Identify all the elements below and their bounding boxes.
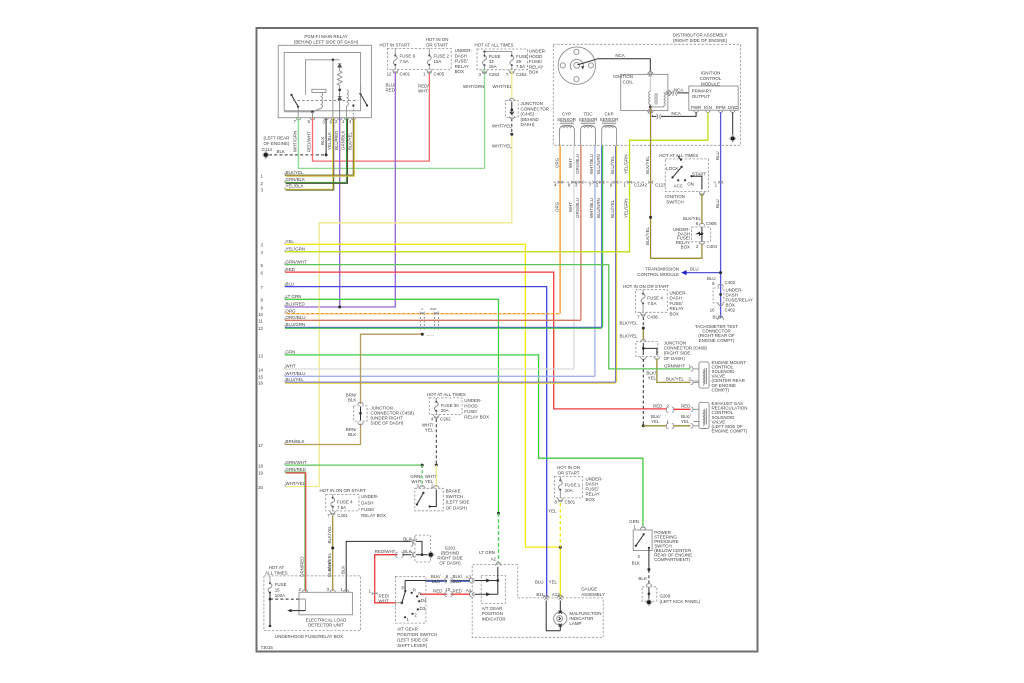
svg-text:19: 19 [258,471,263,476]
svg-text:NCA: NCA [615,53,624,58]
wire RED to A4 [420,593,470,595]
svg-text:GRN: GRN [629,519,639,524]
svg-text:RED: RED [453,588,462,593]
wire 10 ORG [285,313,560,315]
svg-text:A3: A3 [466,575,472,580]
fuse F39 [511,55,513,57]
svg-text:(LEFT REAR: (LEFT REAR [264,136,290,141]
svg-text:SWITCH: SWITCH [446,494,464,499]
svg-text:CONTROL MODULE: CONTROL MODULE [637,272,679,277]
svg-text:WHT/YEL: WHT/YEL [492,123,512,128]
stepped dashed outline [472,565,603,638]
svg-text:RED: RED [286,267,295,272]
wire BLU from RPM [720,112,722,318]
diode D1 [338,64,342,67]
svg-text:FUSE/: FUSE/ [529,59,543,64]
svg-text:BLK: BLK [348,398,356,403]
wire YEL dashed from C501 [559,503,561,547]
svg-text:OF DASH): OF DASH) [664,356,686,361]
coil secondary winding [650,93,668,107]
svg-text:C401: C401 [337,513,348,518]
wire 17 BRN/BLK [285,334,422,444]
svg-text:BLK/YEL: BLK/YEL [327,525,332,544]
svg-text:COMPARTMENT): COMPARTMENT) [654,557,690,562]
wire 3 YEL to fuse1 junction and gauge A12 [285,244,560,597]
wire RED/WHT feed [375,555,398,603]
connector C262 pin 3 [482,70,487,74]
svg-text:FUSE 4: FUSE 4 [647,296,663,301]
svg-text:PRIMARY: PRIMARY [692,89,712,94]
svg-text:UNDER-: UNDER- [670,290,688,295]
svg-text:C436: C436 [647,315,658,320]
svg-text:YEL/GRN: YEL/GRN [624,199,629,218]
svg-text:OF DASH): OF DASH) [446,505,468,510]
svg-text:10A: 10A [565,488,573,493]
svg-text:SIDE OF DASH): SIDE OF DASH) [371,421,404,426]
svg-text:16: 16 [258,381,263,386]
svg-text:SENSOR: SENSOR [600,117,619,122]
svg-text:UNDER-: UNDER- [455,48,473,53]
feed link [485,52,512,55]
svg-text:11: 11 [258,319,263,324]
connector C405 pin 1 [427,69,432,73]
wire 5 GRN/WHT to engine mount solenoid [285,265,691,369]
junction connector C469 [641,340,646,343]
svg-text:NCA: NCA [671,111,680,116]
svg-text:GND: GND [728,105,738,110]
svg-text:BLU/GRN: BLU/GRN [596,154,601,174]
svg-text:(LEFT KICK PANEL): (LEFT KICK PANEL) [660,599,701,604]
svg-text:PGM-FI MAIN RELAY: PGM-FI MAIN RELAY [304,34,347,39]
svg-text:C262: C262 [516,72,527,77]
svg-text:DETECTOR UNIT: DETECTOR UNIT [308,623,344,628]
switch link dashed [293,100,346,102]
wire 14 WHT [285,368,574,370]
switch contacts [422,492,424,494]
svg-text:BLK: BLK [403,537,411,542]
diode D2 [338,90,342,118]
svg-text:BOX: BOX [455,69,464,74]
distributor cap [558,47,595,84]
svg-text:YEL/BLK: YEL/BLK [286,184,304,189]
svg-text:TDC: TDC [583,112,593,117]
svg-text:FUSE: FUSE [275,582,287,587]
svg-text:BLK/YEL: BLK/YEL [286,170,305,175]
ground G201 [427,551,435,559]
svg-text:HOT IN START: HOT IN START [379,43,410,48]
svg-text:(LEFT SIDE: (LEFT SIDE [446,500,470,505]
svg-text:BLK/YEL: BLK/YEL [619,321,638,326]
wire BLU TCM arrow [686,272,721,274]
svg-text:IGN: IGN [704,105,712,110]
EGR solenoid valve [693,402,709,428]
svg-text:ENGINE COMPT): ENGINE COMPT) [699,338,735,343]
svg-text:(BEHIND: (BEHIND [521,117,539,122]
svg-text:GAUGE: GAUGE [581,587,597,592]
svg-text:C501: C501 [565,500,576,505]
svg-text:BLK: BLK [403,549,411,554]
wire BLK/YEL pin4 to stub 1 [285,118,353,175]
svg-text:13: 13 [258,353,263,358]
A/T gear position indicator [481,575,505,603]
svg-text:C906: C906 [706,221,717,226]
tach test connector [718,316,724,320]
svg-text:ORG: ORG [554,201,559,212]
svg-text:SENSOR: SENSOR [579,117,598,122]
svg-text:GRN/RED: GRN/RED [286,467,306,472]
relay K1 outer box [278,45,371,117]
break on red vertical [372,592,377,595]
svg-text:10: 10 [710,307,715,312]
wire BLU/RED line 9 with fuse9 drop [285,73,395,308]
svg-text:FUSE/: FUSE/ [464,409,478,414]
fuse F15 [269,576,271,583]
svg-text:GRN/BLK: GRN/BLK [341,130,346,150]
svg-text:HOT AT: HOT AT [269,565,285,570]
svg-text:COIL: COIL [623,79,634,84]
svg-text:RED: RED [433,588,442,593]
svg-text:ON: ON [687,182,694,187]
svg-text:FUSE 1: FUSE 1 [565,482,581,487]
svg-text:20: 20 [258,485,263,490]
svg-text:HOT IN ON OR START: HOT IN ON OR START [319,488,365,493]
svg-text:A2: A2 [491,557,497,562]
border frame [257,28,758,652]
connector C262 pin 7 [509,70,514,74]
svg-text:A4: A4 [466,588,472,593]
svg-text:FUSE/: FUSE/ [361,507,375,512]
svg-text:UNDER-: UNDER- [529,49,547,54]
svg-text:BLU: BLU [715,199,720,208]
svg-text:BLK/YEL: BLK/YEL [645,226,650,245]
wire 18 GRN/WHT [285,464,422,466]
wire YEL/GRN from IGN [285,112,708,251]
wire 8 LT GRN dashed to A2 [498,513,500,563]
svg-text:DASH: DASH [670,296,682,301]
svg-text:BLK: BLK [638,576,646,581]
coil primary winding [649,75,651,92]
svg-text:CONTROL: CONTROL [700,76,722,81]
svg-text:— —: — — [427,333,434,337]
svg-text:RED: RED [681,403,690,408]
svg-text:7.5A: 7.5A [400,59,409,64]
wire 8 LT GRN [285,299,499,513]
svg-text:G209: G209 [660,594,671,599]
svg-text:GRN/WHT: GRN/WHT [664,364,685,369]
svg-text:(RIGHT SIDE OF ENGINE): (RIGHT SIDE OF ENGINE) [673,38,727,43]
node [338,88,341,91]
svg-text:HOOD: HOOD [529,54,542,59]
svg-text:NCA: NCA [674,88,683,93]
svg-text:PWR: PWR [691,105,701,110]
fuse F9 [394,48,396,55]
svg-text:BLU: BLU [715,151,720,160]
wire RED cont to EGR pin2 [667,408,691,410]
svg-text:BLU: BLU [535,580,544,585]
svg-text:C402: C402 [725,280,736,285]
svg-text:CONNECTOR: CONNECTOR [521,106,550,111]
breaks on EGR wires [666,407,674,412]
svg-text:WHT/BLU: WHT/BLU [589,154,594,174]
svg-text:RED/WHT: RED/WHT [306,131,311,152]
svg-text:WHT: WHT [430,307,437,311]
svg-text:14: 14 [258,367,263,372]
svg-text:FUSE 9: FUSE 9 [400,54,416,59]
svg-text:LAMP: LAMP [569,621,581,626]
svg-text:SENSOR: SENSOR [557,117,576,122]
svg-text:START: START [692,171,706,176]
svg-text:IGNITION: IGNITION [701,71,721,76]
coil terminal right [666,90,671,96]
fuse F2 [428,48,430,55]
svg-text:C405: C405 [434,72,445,77]
svg-text:BLU: BLU [690,267,699,272]
svg-text:UNDERHOOD FUSE/RELAY BOX: UNDERHOOD FUSE/RELAY BOX [275,634,343,639]
svg-text:73015: 73015 [261,645,274,650]
coil L2 right [347,90,349,106]
svg-text:A12: A12 [552,592,560,597]
svg-text:P: P [402,586,405,591]
svg-text:COMPT): COMPT) [712,387,730,392]
wire 19 GRN/RED to ELD [285,472,305,591]
svg-text:15: 15 [258,375,263,380]
svg-text:HOT AT ALL TIMES: HOT AT ALL TIMES [475,43,514,48]
feed stub [678,156,681,160]
svg-text:BOX: BOX [670,312,679,317]
svg-text:BRN/BLK: BRN/BLK [286,439,305,444]
svg-text:UNDER-: UNDER- [361,494,379,499]
wire 6 RED to EGR [285,272,667,409]
svg-text:HOT IN ON: HOT IN ON [426,37,449,42]
svg-text:YEL: YEL [425,428,434,433]
svg-text:YEL: YEL [681,419,690,424]
node junction [332,58,335,61]
dashed link to ELD sense [270,598,299,600]
svg-text:BLK/YEL: BLK/YEL [348,131,353,150]
contacts [400,601,403,604]
wire pin6 vertical [332,60,334,118]
svg-text:SWITCH: SWITCH [666,200,684,205]
svg-text:A/T GEAR: A/T GEAR [397,626,418,631]
wire START to pin [692,176,702,189]
svg-text:WHT: WHT [568,202,573,212]
coil terminal bottom [648,109,654,114]
internal arrows [475,567,498,594]
svg-text:BLU/YEL: BLU/YEL [286,377,305,382]
svg-text:RELAY BOX: RELAY BOX [464,415,489,420]
svg-text:BLK/YEL: BLK/YEL [327,552,332,571]
switch S2 right [359,93,361,95]
svg-text:GRN/WHT: GRN/WHT [286,460,307,465]
wire WHT/YEL [285,71,512,487]
svg-text:C262: C262 [440,417,451,422]
coil L1 left [312,89,326,92]
svg-text:WHT/YEL: WHT/YEL [493,84,513,89]
wire BLK from ELD pin1 [346,541,430,592]
svg-text:WHT/GRN: WHT/GRN [293,131,298,152]
svg-text:OUTPUT: OUTPUT [692,94,711,99]
svg-text:BOX: BOX [586,497,595,502]
svg-text:BLK/YEL: BLK/YEL [683,216,702,221]
svg-text:HOT IN ON OR START: HOT IN ON OR START [623,284,669,289]
svg-text:HOOD: HOOD [464,404,477,409]
under-dash relay box (C906/C404) [692,227,711,242]
svg-text:BLK/YEL: BLK/YEL [666,377,685,382]
svg-text:D4: D4 [421,598,427,603]
svg-text:ORG/BLU: ORG/BLU [575,198,580,218]
wire 15 WHT/BLU [285,375,595,377]
coil core [654,93,658,105]
svg-text:INDICATOR: INDICATOR [482,616,506,621]
svg-text:RELAY BOX: RELAY BOX [361,513,386,518]
svg-text:YEL/GRN: YEL/GRN [624,155,629,174]
svg-text:15A: 15A [434,59,442,64]
svg-text:(C445): (C445) [521,112,535,117]
svg-text:C262: C262 [489,72,500,77]
svg-text:BOX: BOX [681,245,690,250]
wire GND + ground [732,112,734,136]
svg-text:YEL: YEL [648,376,657,381]
svg-text:RED/WHT: RED/WHT [375,549,396,554]
connector C401 pin 12 [393,69,398,73]
svg-text:10: 10 [445,587,450,592]
svg-text:GRN/BLK: GRN/BLK [286,177,306,182]
wire 13 GRN to PS switch [285,355,643,526]
wire BLU/YEL [615,146,617,382]
B11 / A12 connectors [543,595,549,600]
svg-text:15A: 15A [489,64,497,69]
wire BLK/YEL to EGR pin1 [643,425,690,427]
svg-text:TRANSMISSION: TRANSMISSION [645,267,679,272]
wire GRN/BLK pin1 to stub 2 [285,118,347,183]
svg-text:YEL/BLK: YEL/BLK [327,132,332,150]
svg-text:UNDER-: UNDER- [464,398,482,403]
svg-text:WHT/YEL: WHT/YEL [492,144,512,149]
svg-text:RELAY: RELAY [670,306,684,311]
wire BLK/YEL ign sw to C906 [701,194,703,224]
svg-text:(LEFT SIDE OF: (LEFT SIDE OF [397,638,429,643]
wire 7 BLU to gauge B11 [285,287,547,597]
svg-text:POSITION SWITCH: POSITION SWITCH [397,632,437,637]
wire WHT/YEL to brake switch [435,465,437,487]
wire ORG [559,146,561,314]
svg-text:RED: RED [653,403,662,408]
wire BLK dashed to G209 [648,570,650,584]
wire BLK/BLU to A3 [426,580,470,582]
svg-text:15: 15 [275,588,280,593]
svg-text:7.5A: 7.5A [337,505,346,510]
svg-text:C404: C404 [707,244,718,249]
svg-text:FUSE 4: FUSE 4 [337,499,353,504]
svg-text:GRN/RED: GRN/RED [300,557,305,577]
svg-text:CKP: CKP [604,112,613,117]
faint connector marks above BRN/BLK dot [421,317,439,330]
svg-text:RELAY: RELAY [455,64,469,69]
wire BLK/YEL dashed down to EGR [642,359,644,425]
svg-text:FUSE/: FUSE/ [455,59,469,64]
svg-text:BLU/GRN: BLU/GRN [596,198,601,218]
wire BLK dashed to G114 [269,154,326,156]
svg-text:C401: C401 [400,72,411,77]
svg-text:ORG/BLU: ORG/BLU [286,315,306,320]
svg-text:BLU/YEL: BLU/YEL [610,155,615,174]
svg-text:FUSE 2: FUSE 2 [434,54,450,59]
svg-text:ORG: ORG [286,308,297,313]
svg-text:CYP: CYP [562,112,571,117]
wire BLU/RED pin2 [339,118,341,307]
wire WHT/BLU [594,146,596,376]
svg-text:RELAY: RELAY [529,64,543,69]
svg-text:ASSEMBLY: ASSEMBLY [581,592,605,597]
A2 connector [495,563,501,566]
svg-text:100A: 100A [275,593,285,598]
svg-text:DISTRIBUTOR ASSEMBLY: DISTRIBUTOR ASSEMBLY [673,33,728,38]
svg-text:C124: C124 [634,182,645,187]
A4 connector [469,592,474,597]
engine mount solenoid valve [693,362,709,388]
svg-text:YEL: YEL [548,508,557,513]
svg-text:BLU/RED: BLU/RED [286,302,305,307]
ground G114 [262,151,270,160]
connector C906 pin 6 [699,223,704,226]
fuse F33 [484,52,486,56]
svg-text:WHT: WHT [418,89,428,94]
wire top horizontal [306,60,340,95]
svg-text:RED: RED [386,88,395,93]
connector C404 pin 2 [699,242,704,245]
svg-text:OR START: OR START [557,471,579,476]
resistor R1 [337,68,342,90]
svg-text:ORG: ORG [554,157,559,168]
svg-text:SHIFT LEVER): SHIFT LEVER) [397,643,428,648]
svg-text:GRN/WHT: GRN/WHT [286,259,307,264]
wire WHT/GRN pin7 [298,71,484,169]
svg-text:ALL TIMES: ALL TIMES [265,571,287,576]
svg-text:YEL: YEL [286,239,295,244]
svg-text:GRN: GRN [286,350,296,355]
wire 18 dashed to brake switch [421,465,423,487]
svg-text:B11: B11 [536,592,544,597]
svg-text:YEL: YEL [549,580,558,585]
svg-text:WHT/GRN: WHT/GRN [463,84,484,89]
svg-text:N: N [418,591,421,596]
ELD unit box [299,592,352,615]
svg-text:BLU: BLU [453,579,462,584]
svg-text:BLK/YEL: BLK/YEL [619,334,638,339]
relay inner circuit loop [284,53,360,111]
G209 connector [646,584,651,587]
svg-text:BOX: BOX [529,70,538,75]
A3 connector [469,578,474,583]
svg-text:D3: D3 [420,606,426,611]
ELD pins [302,590,349,593]
svg-text:BLK: BLK [277,149,285,154]
wire ORG/BLU [580,146,582,320]
breaks [445,578,453,583]
svg-text:BLK: BLK [341,566,346,574]
switch arm [673,167,682,178]
wire YEL/BLK pin6 to line stub 3 [285,118,333,189]
svg-text:G114: G114 [262,147,273,152]
svg-text:WHT/BLU: WHT/BLU [589,198,594,218]
svg-text:R: R [413,588,416,593]
svg-text:WHT: WHT [568,158,573,168]
junction connector C445 [506,100,519,117]
wire WHT [573,146,575,369]
svg-text:BLU/RED: BLU/RED [334,131,339,150]
svg-text:17: 17 [258,443,263,448]
svg-text:C123: C123 [655,182,666,187]
